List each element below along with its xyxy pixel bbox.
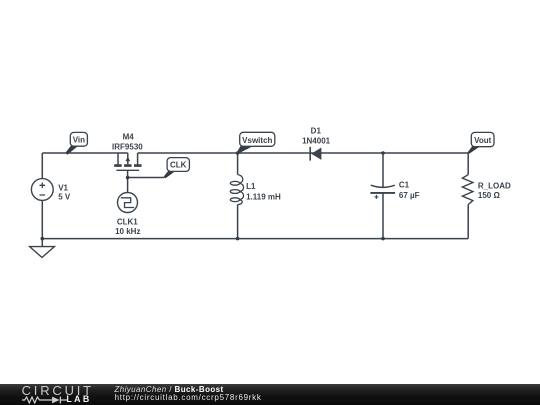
svg-text:CLK: CLK xyxy=(170,160,187,169)
svg-text:1.119 mH: 1.119 mH xyxy=(246,192,281,201)
svg-text:1N4001: 1N4001 xyxy=(302,136,331,145)
svg-text:R_LOAD: R_LOAD xyxy=(478,181,511,190)
svg-text:10 kHz: 10 kHz xyxy=(115,227,140,236)
svg-text:M4: M4 xyxy=(123,133,135,142)
svg-text:IRF9530: IRF9530 xyxy=(112,142,143,151)
svg-text:Vout: Vout xyxy=(474,136,492,145)
svg-text:67 µF: 67 µF xyxy=(399,191,420,200)
svg-text:C1: C1 xyxy=(399,181,410,190)
svg-text:V1: V1 xyxy=(58,183,68,192)
svg-text:D1: D1 xyxy=(311,126,322,135)
svg-text:Vswitch: Vswitch xyxy=(242,136,272,145)
svg-text:150 Ω: 150 Ω xyxy=(478,191,501,200)
svg-text:CLK1: CLK1 xyxy=(117,218,138,227)
svg-text:Vin: Vin xyxy=(73,136,85,145)
svg-text:L1: L1 xyxy=(246,182,256,191)
svg-text:5 V: 5 V xyxy=(58,192,71,201)
